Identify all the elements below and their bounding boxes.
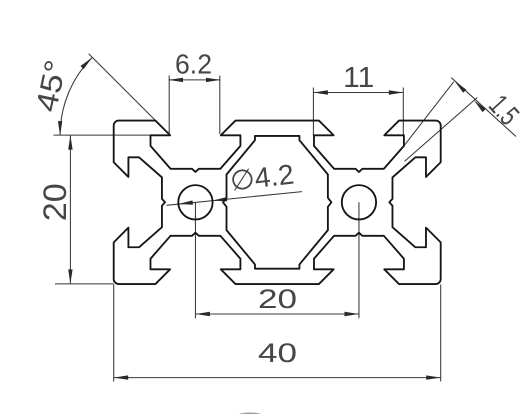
right bore hole diameter 4.2 bbox=[342, 185, 376, 219]
angle dimension 45deg : diagonal leg along slot bevel bbox=[89, 54, 170, 135]
dimension 6.2 : text label bbox=[175, 49, 212, 80]
svg-text:20: 20 bbox=[258, 284, 297, 314]
central octagonal cavity with keyways bbox=[223, 136, 331, 269]
dimension 40 width : dimension line with arrowheads bbox=[114, 375, 441, 379]
dimension 1.5 : dimension line with arrowheads bbox=[451, 78, 516, 137]
extrusion profile outer contour with six V-slots bbox=[114, 121, 441, 284]
svg-text:6.2: 6.2 bbox=[175, 49, 212, 80]
dimension 20 height : text label bbox=[37, 183, 73, 221]
dimension 40 width : text label bbox=[258, 338, 297, 368]
dimension 40 width : extension lines bbox=[114, 285, 441, 382]
svg-text:11: 11 bbox=[343, 62, 374, 94]
dimension 1.5 : text label bbox=[482, 89, 525, 131]
dimension 1.5 : extension line B from side slot pocket slope bbox=[405, 98, 478, 162]
svg-text:20: 20 bbox=[37, 183, 73, 221]
dimension 11 : text label bbox=[343, 62, 374, 94]
angle dimension 45deg : text label bbox=[30, 57, 73, 115]
dimension 20 height : dimension line with arrowheads bbox=[68, 135, 72, 284]
dimension 6.2 : extension lines from slot lips bbox=[169, 76, 220, 135]
diameter 4.2 leader line with arrowheads at bore bbox=[167, 192, 302, 206]
left bore hole diameter 4.2 bbox=[178, 185, 212, 219]
dimension 11 : extension lines from slot pocket bbox=[313, 88, 403, 137]
diameter 4.2 : text label bbox=[228, 159, 295, 197]
dimension 20 bore spacing : text label bbox=[258, 284, 297, 314]
angle dimension 45deg : horizontal leg / 20-dim top extension line bbox=[54, 134, 171, 136]
dimension 11 : dimension line with arrowheads bbox=[313, 90, 403, 94]
angle dimension 45deg : arc with arrowheads bbox=[58, 57, 92, 135]
partially visible watermark at bottom edge bbox=[231, 413, 270, 414]
dimension 20 bore spacing : centre extension lines bbox=[195, 202, 359, 318]
dimension 20 bore spacing : dimension line with arrowheads bbox=[195, 312, 359, 316]
dimension 1.5 : extension line A from slot pocket slope bbox=[404, 82, 454, 146]
dimension 6.2 : dimension line with arrowheads bbox=[169, 78, 221, 82]
svg-text:40: 40 bbox=[258, 338, 297, 368]
dimension 20 height : bottom extension line bbox=[55, 283, 114, 285]
